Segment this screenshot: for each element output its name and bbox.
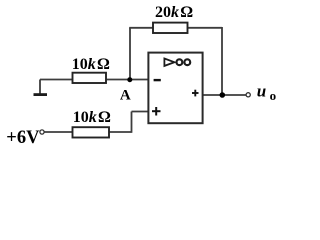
svg-text:10kΩ: 10kΩ xyxy=(72,56,110,73)
svg-text:10kΩ: 10kΩ xyxy=(73,109,111,126)
svg-text:o: o xyxy=(270,88,277,103)
svg-text:20kΩ: 20kΩ xyxy=(155,4,193,21)
svg-text:u: u xyxy=(257,81,266,100)
svg-text:A: A xyxy=(120,87,131,103)
svg-text:+6V: +6V xyxy=(6,128,40,148)
